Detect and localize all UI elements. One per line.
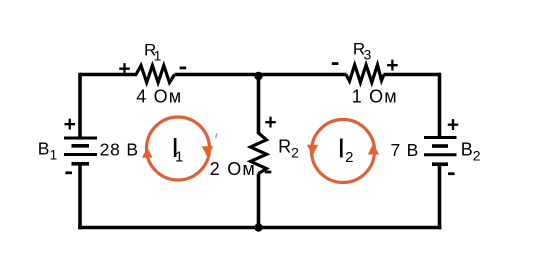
node junction top <box>254 72 262 80</box>
battery B2 <box>424 138 457 165</box>
svg-text:+: + <box>447 114 459 137</box>
polarity - below B2 <box>448 172 455 175</box>
polarity - below R2 <box>265 171 272 174</box>
resistor R1 <box>136 66 175 83</box>
resistor R3 <box>346 65 384 83</box>
wire middle branch lower <box>257 174 261 228</box>
stray mark artifact <box>216 134 217 139</box>
node junction bottom <box>254 223 262 231</box>
battery B1 <box>64 138 97 164</box>
wire top-middle segment <box>175 73 347 77</box>
polarity - right of R1 <box>180 67 187 70</box>
svg-text:28 В: 28 В <box>100 140 139 160</box>
wire left side upper <box>78 73 82 137</box>
svg-text:+: + <box>118 58 130 81</box>
mesh current I1 arrow (clockwise) <box>142 117 213 180</box>
svg-text:2 Ом: 2 Ом <box>210 159 256 179</box>
svg-text:+: + <box>386 54 398 77</box>
svg-text:+: + <box>264 111 276 134</box>
resistor R2 <box>251 133 267 174</box>
wire bottom <box>78 226 441 230</box>
polarity - below B1 <box>65 171 72 174</box>
svg-text:4 Ом: 4 Ом <box>136 87 182 107</box>
mesh current I2 arrow (counterclockwise) <box>307 120 379 183</box>
wire left side lower <box>78 164 82 230</box>
wire right side lower <box>438 164 442 229</box>
wire middle branch upper <box>257 75 261 135</box>
svg-text:+: + <box>64 113 76 136</box>
wire right side upper <box>438 73 442 137</box>
polarity - left of R3 <box>332 62 339 65</box>
wire top-left segment <box>80 73 137 77</box>
svg-text:7 В: 7 В <box>390 140 419 160</box>
wire top-right segment <box>384 73 440 77</box>
svg-text:1 Ом: 1 Ом <box>352 87 398 107</box>
